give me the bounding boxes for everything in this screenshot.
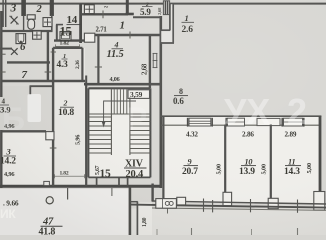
door tick room 4 left <box>95 66 102 68</box>
column circle in corridor 47 <box>46 197 53 204</box>
fixture: cross X near room 6 <box>11 48 18 55</box>
wall: room 1-4.3 top <box>53 47 82 49</box>
hatched chimney block <box>163 1 169 15</box>
stair upper flight risers <box>89 89 150 155</box>
svg-text:УХ: УХ <box>224 91 270 132</box>
window symbol in shaft wall <box>153 53 158 68</box>
fixture: shower tray WC 15 <box>60 32 71 41</box>
ventilation box with circles <box>156 199 177 209</box>
wall: divider room3 left <box>5 0 7 27</box>
wall: main bottom wall <box>0 185 161 188</box>
wall: divider rooms 10-11 <box>270 125 272 199</box>
pilaster divider 9-10 <box>223 192 232 205</box>
stair right flight treads <box>130 117 151 153</box>
stair block walls <box>88 87 150 89</box>
wall stub above room 2-10.8 right <box>85 76 87 86</box>
wall: room 6 bottom <box>7 61 50 63</box>
wall: left outer upper <box>0 11 2 97</box>
wall: outer vertical x161 (stair shaft east) <box>160 16 163 188</box>
region fill: rooms 9-10-11 interior <box>164 117 319 203</box>
wall: WC bottom <box>54 39 84 41</box>
door tick room 3 right wall <box>50 147 57 149</box>
svg-text:Р: Р <box>126 101 147 137</box>
door tick right wall room 7 <box>45 71 52 73</box>
wall: corridor 47 right vertical <box>129 186 132 235</box>
shaft 1-2.6 walls <box>169 4 171 31</box>
wall: corridor 1 bottom <box>95 34 161 37</box>
faint ticks bottom strip <box>156 229 158 235</box>
wall: room 4 right <box>149 35 151 88</box>
region fill: room 4-11.5 interior <box>99 36 149 84</box>
wall: WC left <box>56 25 58 41</box>
wall: bottom band of rooms 9-11 <box>152 201 326 204</box>
wall: room 7 bottom <box>1 80 85 83</box>
door tick corridor 1 bottom <box>129 32 131 39</box>
shaft 1-2.6 interior <box>161 4 173 42</box>
wall: WC top stub <box>56 24 63 26</box>
wall: room 2-10.8 right <box>85 84 87 186</box>
door tick left wall room 7 <box>0 71 6 73</box>
fixture: stove box right of WC <box>84 5 94 14</box>
balcony door W3 <box>257 118 280 125</box>
stair direction arrow <box>104 101 136 123</box>
wall: west edge of bottom band <box>151 184 153 202</box>
wall: rooms top main line <box>160 115 321 117</box>
wall: room 4 bottom <box>84 83 161 86</box>
pilaster box hall x85 <box>84 33 94 42</box>
region fill: room 2-10.8 interior <box>54 48 85 186</box>
door tick left wall room 6 <box>0 53 6 55</box>
wall: bath rooms bottom y31 <box>1 30 53 32</box>
wall: room 5.9 bottom <box>133 16 161 18</box>
region fill: room 1-4.3 interior <box>54 48 82 81</box>
wall: thick divider right of room 2 <box>50 0 54 16</box>
door tick corridor 1 top <box>102 11 104 19</box>
wall corner nib below flat <box>30 85 54 87</box>
region fill: corridor 47 interior <box>0 189 129 235</box>
fixture: sink box with cross <box>43 18 52 27</box>
door tick bottom band room 10 <box>250 199 252 212</box>
wall: room 1-4.3 right <box>81 48 83 81</box>
fixture: cross X room 3 <box>9 16 19 24</box>
fixture: washbasin room 6 <box>16 34 26 44</box>
region fill: small room 1.80 bottom <box>138 203 152 236</box>
small pilaster box next to vent <box>177 197 186 205</box>
stair door stubs to corridor <box>96 177 98 186</box>
wall: room 3 top <box>1 130 46 132</box>
fixture: box with cross room 6 <box>33 31 42 39</box>
pilaster box room3 top right <box>46 132 54 140</box>
wall: thin sill line under windows <box>161 124 319 126</box>
wall: thick divider between rooms 3 and 2 <box>21 0 26 16</box>
door tick bottom band room 9 east <box>212 200 214 212</box>
region fill: room 3-14.2 interior <box>2 132 52 186</box>
wall: rooms 6-7 right <box>47 30 49 81</box>
svg-text:Б: Б <box>2 101 25 137</box>
window W4 <box>282 118 304 127</box>
window W2 <box>226 118 244 127</box>
3,59 box <box>128 90 150 99</box>
stair left flight treads <box>89 117 111 153</box>
fence tick below bottom wall <box>67 188 69 200</box>
wall: rooms area left vertical <box>162 116 164 202</box>
window W1 <box>188 118 213 127</box>
wall: WC right thick x80.5 <box>79 4 82 43</box>
wall: building top <box>0 3 326 5</box>
wall: room 4 left <box>97 35 99 84</box>
pilaster divider 10-11 <box>268 198 278 208</box>
region fill: bottom strip neighbour flat <box>131 209 326 236</box>
svg-text:ИК: ИК <box>0 207 16 221</box>
door tick room 4.3 <box>51 51 56 53</box>
door tick bottom band room 9 <box>203 199 205 212</box>
fixture: toilet room 2 <box>27 15 35 29</box>
door tick bottom band room 11 <box>297 200 299 213</box>
wall stub left closet <box>0 48 12 50</box>
region fill: stair hall XIV interior <box>89 89 150 177</box>
pilaster right wall bottom <box>314 192 325 211</box>
wall: building right vertical <box>319 116 322 192</box>
wall: room 1-4.3 left / rooms 10.8-3 divider <box>52 48 54 186</box>
svg-text:2: 2 <box>287 91 307 132</box>
pilaster bump on bottom wall <box>44 181 50 185</box>
wall: left outer room 3 <box>0 130 2 188</box>
jog wall to room 1.80 <box>130 201 138 203</box>
wall: divider rooms 9-10 <box>224 125 226 193</box>
wall: gamma corner room 5.9 <box>126 0 129 15</box>
wall: corridor 1 top <box>81 13 128 15</box>
